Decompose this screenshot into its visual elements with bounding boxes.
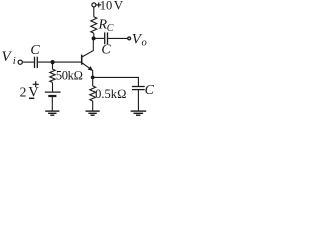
power terminal +10V circle [92,3,96,7]
capacitor C bypass [132,87,145,90]
ground below battery [45,111,59,115]
wire supply to RC [93,7,95,17]
svg-text:o: o [142,38,147,49]
transistor Q1 emitter arrow [88,66,93,71]
resistor RE 0.5kOhm [90,86,96,101]
wire emitter node down to RE [92,77,94,86]
resistor 50kOhm [50,69,55,82]
wire collector node to output cap [94,37,105,39]
wire resistor to battery [52,82,54,91]
wire RC to collector node [93,33,95,38]
battery 2V long plate [45,91,61,93]
node Vo output terminal [128,37,131,40]
battery 2V short plate [48,95,56,97]
node base junction [51,60,55,64]
svg-text:50kΩ: 50kΩ [56,68,83,82]
wire bypass cap to ground [137,90,139,111]
svg-text:i: i [13,56,16,67]
transistor Q1 base bar [81,55,83,65]
wire output cap to Vo terminal [108,37,128,39]
svg-text:C: C [107,23,114,34]
transistor Q1 collector lead [82,38,93,57]
node Vi input terminal [18,60,22,64]
transistor Q1 emitter lead [82,63,93,78]
svg-text:C: C [101,42,111,57]
ground below RE [86,111,100,115]
capacitor C input coupling [35,57,38,68]
wire RE to ground [92,101,94,111]
label + battery plus [33,81,39,87]
node emitter [91,76,95,80]
capacitor C output coupling [105,32,108,44]
wire emitter node to bypass cap [93,77,139,86]
wire junction down to 50k resistor [52,62,54,69]
resistor RC [91,17,97,33]
svg-text:V: V [114,0,124,13]
label Vo [132,32,147,49]
label - battery minus [29,97,34,99]
label +10V [96,3,101,8]
svg-text:C: C [145,83,154,98]
svg-text:2: 2 [20,84,27,99]
ground below bypass cap [131,111,147,115]
svg-text:0.5kΩ: 0.5kΩ [95,87,126,101]
label Vi [2,49,16,67]
svg-text:V: V [2,49,13,65]
svg-text:C: C [30,43,40,58]
node collector [92,36,96,40]
wire cap to base [38,61,81,63]
wire battery to ground [51,97,53,111]
svg-text:10: 10 [100,0,113,13]
wire input terminal to coupling cap [23,61,34,63]
label RC [98,18,114,34]
